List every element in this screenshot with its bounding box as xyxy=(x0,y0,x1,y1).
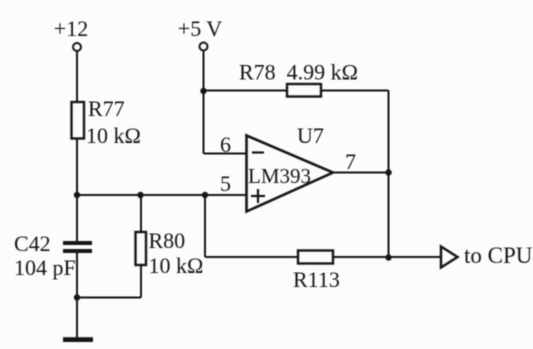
ground xyxy=(63,337,93,342)
+5V supply terminal xyxy=(200,43,208,51)
wire C42 to ground node xyxy=(76,253,78,298)
wire to R113 xyxy=(205,256,298,258)
output junction xyxy=(385,169,391,175)
node A junction xyxy=(74,192,80,198)
svg-text:R80: R80 xyxy=(149,228,186,253)
wire node A main horizontal xyxy=(77,194,247,196)
resistor R77 xyxy=(72,102,85,139)
op-amp plus input sign xyxy=(251,189,265,203)
svg-text:+5 V: +5 V xyxy=(178,16,223,41)
wire node B to R80 xyxy=(140,195,142,232)
wire R77 to node A xyxy=(76,139,78,196)
svg-text:LM393: LM393 xyxy=(248,164,311,188)
capacitor C42 xyxy=(63,243,92,251)
svg-text:to CPU: to CPU xyxy=(464,243,533,268)
svg-text:7: 7 xyxy=(345,149,356,174)
wire ground node to R80 bottom xyxy=(77,297,141,299)
wire op-amp output xyxy=(333,172,389,174)
svg-text:C42: C42 xyxy=(14,231,51,256)
wire to output buffer xyxy=(389,256,442,258)
wire +5V to node D xyxy=(203,51,205,92)
svg-text:R113: R113 xyxy=(293,267,340,292)
svg-text:10 kΩ: 10 kΩ xyxy=(86,123,141,148)
wire node C down to R113 xyxy=(204,195,206,257)
+12 supply terminal xyxy=(73,43,81,51)
resistor R80 xyxy=(136,232,147,265)
bottom junction xyxy=(385,254,391,260)
node D junction xyxy=(200,88,206,94)
wire node D to pin 6 xyxy=(203,91,205,154)
wire R78 to right rail xyxy=(321,90,389,92)
to CPU buffer symbol xyxy=(441,247,458,268)
node B junction (R80 tap) xyxy=(137,192,143,198)
svg-text:104 pF: 104 pF xyxy=(14,255,76,280)
op-amp U7 LM393 xyxy=(247,136,334,212)
op-amp minus input sign xyxy=(252,151,264,153)
resistor R78 xyxy=(287,84,321,97)
svg-text:R78 4.99 kΩ: R78 4.99 kΩ xyxy=(239,60,358,85)
svg-text:R77: R77 xyxy=(88,96,125,121)
wire R80 to ground wire xyxy=(140,265,142,298)
svg-text:U7: U7 xyxy=(297,123,324,148)
svg-text:10 kΩ: 10 kΩ xyxy=(149,253,204,278)
node C junction (pin5 / R113 tap) xyxy=(202,192,208,198)
svg-text:+12: +12 xyxy=(54,16,88,41)
svg-text:5: 5 xyxy=(220,171,231,196)
wire ground stem xyxy=(76,298,78,339)
wire +12 terminal to R77 xyxy=(76,51,78,102)
wire right rail down xyxy=(388,91,390,259)
resistor R113 xyxy=(298,251,333,264)
svg-text:6: 6 xyxy=(220,132,231,157)
wire node D to R78 xyxy=(204,90,289,92)
wire R113 to right rail xyxy=(333,256,389,258)
wire node A to C42 xyxy=(76,195,78,241)
ground node junction xyxy=(74,294,80,300)
